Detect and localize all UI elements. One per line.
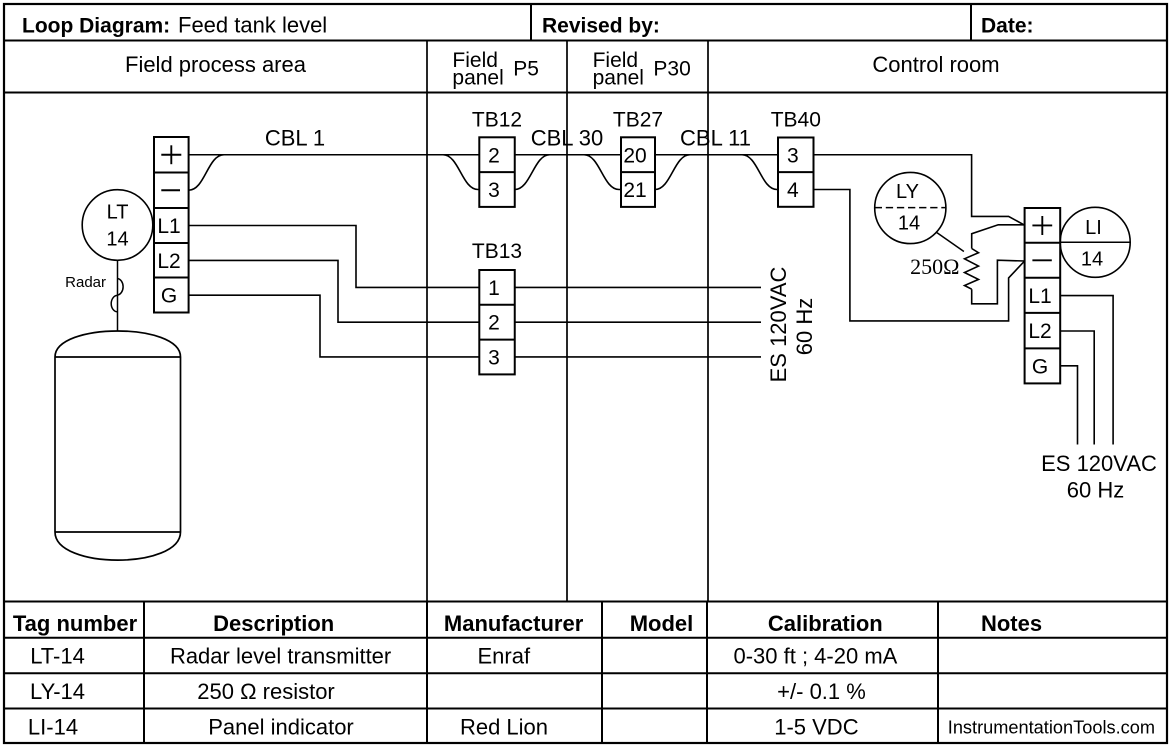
terminal block TB27 xyxy=(621,137,655,207)
radar squiggle wire xyxy=(117,260,119,331)
svg-text:3: 3 xyxy=(787,144,799,167)
svg-text:L1: L1 xyxy=(1028,285,1051,308)
LI panel line xyxy=(1060,241,1130,243)
svg-text:Model: Model xyxy=(630,611,694,636)
svg-text:14: 14 xyxy=(898,213,920,235)
svg-text:G: G xyxy=(161,285,177,308)
table lines xyxy=(4,602,1167,744)
svg-text:TB13: TB13 xyxy=(472,240,522,263)
svg-text:LT: LT xyxy=(107,202,129,224)
svg-text:250 Ω resistor: 250 Ω resistor xyxy=(197,679,335,704)
swoop into TB12-3 xyxy=(443,155,479,190)
relay LY-14 circle xyxy=(875,172,946,243)
svg-text:panel: panel xyxy=(593,67,644,90)
svg-text:L2: L2 xyxy=(157,250,180,273)
svg-text:TB27: TB27 xyxy=(613,109,663,132)
wire LI-L2 down xyxy=(1060,331,1094,445)
svg-text:P30: P30 xyxy=(653,58,690,81)
svg-text:LI: LI xyxy=(1085,217,1102,239)
svg-text:Radar: Radar xyxy=(65,274,106,291)
swoop out of TB12-3 xyxy=(515,155,550,190)
svg-text:ES 120VAC: ES 120VAC xyxy=(1041,451,1157,476)
terminal block TB12 xyxy=(479,137,514,207)
resistor top lead xyxy=(972,225,1025,249)
svg-text:TB40: TB40 xyxy=(771,109,821,132)
LT terminal plus symbol xyxy=(161,145,181,164)
LT terminal strip xyxy=(154,137,189,313)
svg-text:InstrumentationTools.com: InstrumentationTools.com xyxy=(948,718,1155,738)
svg-text:60 Hz: 60 Hz xyxy=(1067,478,1124,503)
title divider date xyxy=(970,4,972,41)
zone divider field/P5 xyxy=(426,41,428,602)
svg-text:Feed tank level: Feed tank level xyxy=(178,13,327,38)
wire G to TB13-3 xyxy=(189,295,480,357)
svg-text:2: 2 xyxy=(488,312,500,335)
svg-text:Manufacturer: Manufacturer xyxy=(444,611,584,636)
svg-text:+/- 0.1 %: +/- 0.1 % xyxy=(777,679,866,704)
transmitter LT-14 circle xyxy=(82,190,153,261)
svg-text:3: 3 xyxy=(488,179,500,202)
swoop out of TB27-21 xyxy=(655,155,690,190)
svg-text:Panel indicator: Panel indicator xyxy=(208,714,354,739)
resistor 250 ohm zigzag xyxy=(965,249,979,290)
svg-text:2: 2 xyxy=(488,144,500,167)
svg-text:Radar level transmitter: Radar level transmitter xyxy=(170,644,391,669)
wire TB12 to TB27 (CBL 30) xyxy=(515,154,621,156)
svg-text:Tag number: Tag number xyxy=(13,611,138,636)
svg-text:Red Lion: Red Lion xyxy=(460,714,548,739)
svg-text:4: 4 xyxy=(787,179,799,202)
wire TB40-3 to LI+ xyxy=(814,155,1025,225)
svg-text:LY-14: LY-14 xyxy=(30,679,85,704)
svg-text:L2: L2 xyxy=(1028,320,1051,343)
zone divider P30/control xyxy=(707,41,709,602)
svg-text:CBL 1: CBL 1 xyxy=(265,126,325,151)
svg-text:Enraf: Enraf xyxy=(478,644,531,669)
svg-text:20: 20 xyxy=(623,144,646,167)
svg-text:Description: Description xyxy=(213,611,334,636)
svg-text:Revised by:: Revised by: xyxy=(542,15,660,38)
wire TB13-2 to ES xyxy=(515,321,761,323)
title divider revised xyxy=(530,4,532,41)
wire LI-G down xyxy=(1060,366,1077,445)
svg-text:14: 14 xyxy=(1081,248,1103,270)
svg-text:LT-14: LT-14 xyxy=(30,644,85,669)
svg-text:14: 14 xyxy=(106,229,128,251)
wire TB40-4 to LI- xyxy=(814,190,1025,321)
svg-text:TB12: TB12 xyxy=(472,109,522,132)
svg-text:1: 1 xyxy=(488,277,500,300)
svg-text:LY: LY xyxy=(896,181,919,203)
svg-text:ES 120VAC: ES 120VAC xyxy=(766,267,791,383)
wire LI-L1 down xyxy=(1060,296,1113,445)
svg-text:0-30 ft ; 4-20 mA: 0-30 ft ; 4-20 mA xyxy=(733,644,897,669)
svg-text:CBL 11: CBL 11 xyxy=(680,125,751,150)
wire L1 to TB13-1 xyxy=(189,226,480,288)
svg-text:P5: P5 xyxy=(513,58,539,81)
svg-text:panel: panel xyxy=(452,67,503,90)
svg-text:Loop Diagram:: Loop Diagram: xyxy=(22,15,170,38)
zone divider P5/P30 xyxy=(566,41,568,602)
svg-text:21: 21 xyxy=(623,179,646,202)
zone row separator xyxy=(4,92,1167,94)
svg-text:1-5 VDC: 1-5 VDC xyxy=(774,714,858,739)
feed tank vessel xyxy=(55,331,181,560)
svg-text:3: 3 xyxy=(488,346,500,369)
terminal block TB13 xyxy=(479,270,514,374)
svg-text:Control room: Control room xyxy=(872,52,999,77)
svg-text:G: G xyxy=(1032,355,1048,378)
svg-text:CBL 30: CBL 30 xyxy=(531,126,604,151)
wire LT+ to TB12 (CBL 1) xyxy=(189,154,480,156)
wire LT- swoop up xyxy=(189,155,224,191)
svg-text:Calibration: Calibration xyxy=(768,611,883,636)
indicator LI-14 circle xyxy=(1060,207,1130,277)
wire TB13-3 to ES xyxy=(515,356,761,358)
LY dashed line xyxy=(875,207,946,209)
terminal block TB40 xyxy=(778,138,814,207)
LI terminal strip xyxy=(1025,208,1061,383)
wire TB27 to TB40 (CBL 11) xyxy=(655,154,778,156)
LY pointer line xyxy=(936,232,964,252)
swoop into TB27-21 xyxy=(584,155,621,190)
LT terminal minus symbol xyxy=(161,189,180,191)
LI terminal plus symbol xyxy=(1032,216,1052,235)
wire L2 to TB13-2 xyxy=(189,260,480,322)
svg-text:Field process area: Field process area xyxy=(125,52,307,77)
swoop into TB40-4 xyxy=(742,155,778,190)
resistor bottom lead xyxy=(972,260,1025,304)
svg-text:250Ω: 250Ω xyxy=(910,254,959,279)
svg-text:L1: L1 xyxy=(157,215,180,238)
title row separator xyxy=(4,40,1167,42)
LI terminal minus symbol xyxy=(1032,259,1051,261)
svg-text:Notes: Notes xyxy=(981,611,1042,636)
svg-text:LI-14: LI-14 xyxy=(28,714,78,739)
svg-text:Date:: Date: xyxy=(981,15,1034,38)
wire TB13-1 to ES xyxy=(515,286,761,288)
svg-text:60 Hz: 60 Hz xyxy=(792,298,817,355)
